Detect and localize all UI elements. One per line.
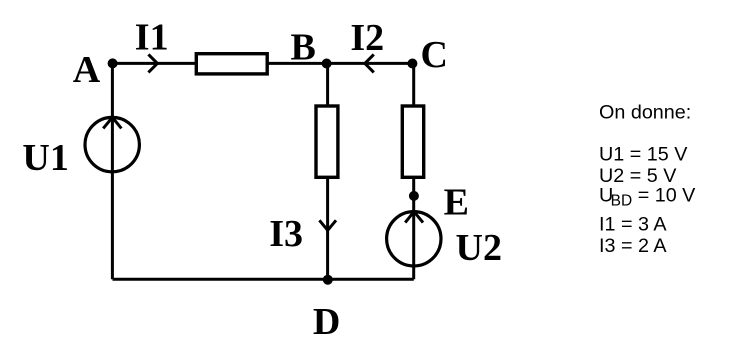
svg-text:U2 = 5 V: U2 = 5 V — [599, 165, 677, 187]
node D — [323, 275, 333, 285]
current arrow I2 — [365, 54, 374, 72]
wire C down through E to bottom — [412, 63, 415, 279]
wire A to R1 — [113, 62, 198, 65]
wire R1 to B — [267, 62, 328, 65]
node E — [409, 191, 419, 201]
node B — [322, 59, 332, 69]
wire B to R2 — [326, 63, 329, 107]
resistor R1 — [196, 54, 267, 74]
svg-text:I1 = 3 A: I1 = 3 A — [599, 214, 667, 236]
current arrow I1 — [148, 54, 157, 72]
svg-text:C: C — [421, 34, 448, 76]
resistor R2 — [316, 106, 338, 177]
svg-text:I1: I1 — [135, 16, 169, 58]
svg-text:I2: I2 — [350, 17, 384, 59]
svg-text:U1: U1 — [22, 137, 68, 179]
wire A down to bottom-left corner — [111, 63, 114, 279]
svg-text:E: E — [444, 182, 469, 224]
svg-text:I3: I3 — [269, 213, 303, 255]
svg-text:On donne:: On donne: — [599, 102, 691, 124]
svg-text:U1 = 15 V: U1 = 15 V — [599, 144, 688, 166]
current arrow I3 — [319, 220, 336, 230]
svg-text:D: D — [313, 301, 340, 343]
bottom wire through D — [113, 278, 414, 281]
svg-text:UBD = 10 V: UBD = 10 V — [599, 185, 696, 210]
source U1 — [85, 117, 139, 171]
source U2 — [387, 212, 441, 266]
svg-text:B: B — [291, 27, 316, 69]
svg-text:I3 = 2 A: I3 = 2 A — [599, 235, 667, 257]
node C — [407, 59, 417, 69]
resistor R3 — [402, 106, 423, 177]
wire B to C — [328, 62, 414, 65]
svg-text:A: A — [73, 49, 101, 91]
svg-text:U2: U2 — [456, 227, 502, 269]
node A — [108, 58, 118, 68]
wire R2 to D — [326, 178, 329, 280]
